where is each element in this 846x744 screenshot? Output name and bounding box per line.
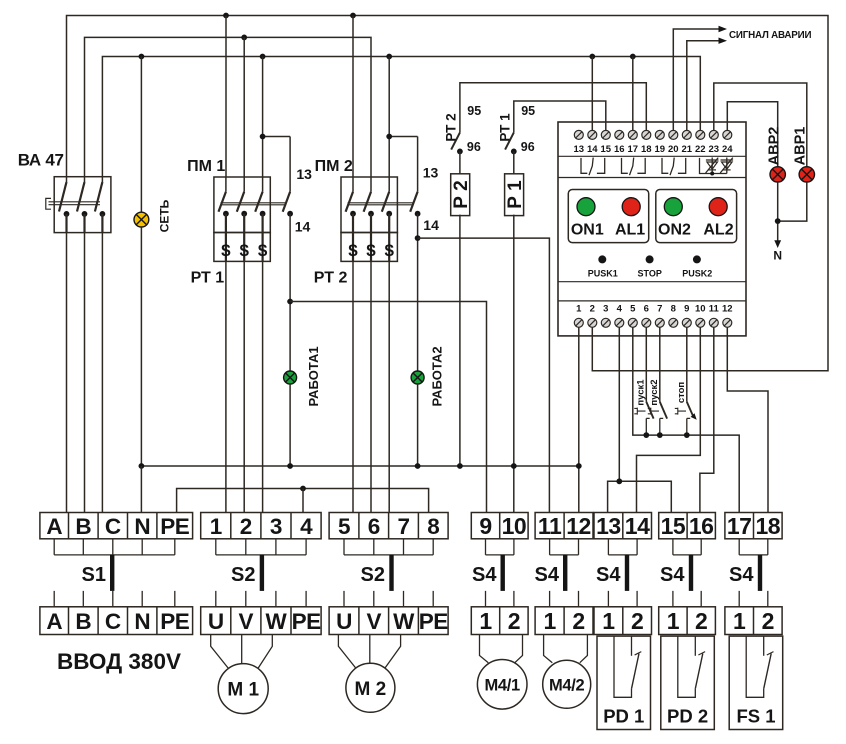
relay P1 coil box xyxy=(505,174,524,216)
wire N line to block S1 cell N xyxy=(140,466,142,513)
breaker BA47 pole 1 xyxy=(66,177,68,182)
svg-text:9: 9 xyxy=(479,513,491,539)
wire terminal 11 to block cell 16 xyxy=(700,327,714,512)
terminal block S4-5 upper row 17 18 xyxy=(725,513,782,539)
connector comb S2-1 upper xyxy=(216,539,306,555)
junction STOP to common xyxy=(684,432,690,438)
cable bar S2-1 xyxy=(260,555,264,591)
svg-text:1: 1 xyxy=(543,608,556,634)
controller bottom terminal numbers xyxy=(576,303,732,314)
wire BA47 output C to block S1 xyxy=(101,233,103,513)
svg-text:пуск2: пуск2 xyxy=(649,379,660,405)
thermal relay RT2 box xyxy=(341,233,397,262)
junction phase C / terminal 17 xyxy=(630,54,636,60)
indicator lamp AVR2 xyxy=(770,167,785,182)
svg-text:B: B xyxy=(75,609,91,634)
connector comb S2-1 lower xyxy=(216,591,306,607)
terminal block S2-2 lower row U V W PE xyxy=(329,607,448,635)
svg-text:W: W xyxy=(393,609,415,634)
wire terminal 21 to alarm signal xyxy=(687,41,720,131)
svg-text:15: 15 xyxy=(601,144,612,155)
terminal block S2-1 upper row 1 2 3 4 xyxy=(201,513,321,539)
cable bar S4 S4-2 xyxy=(563,555,567,591)
junction AVR lamps xyxy=(775,218,781,224)
svg-text:8: 8 xyxy=(671,303,676,314)
svg-text:21: 21 xyxy=(682,144,693,155)
controller lamp ON2 xyxy=(664,198,682,216)
junction PM2 aux branch xyxy=(415,235,421,241)
wire PM2 aux 13 to phase C pole xyxy=(389,136,417,138)
svg-text:ON1: ON1 xyxy=(571,222,604,239)
wires U V W to motor M1 xyxy=(211,635,273,669)
svg-text:М 2: М 2 xyxy=(355,679,387,700)
junction N / relay P1 xyxy=(511,463,517,469)
connector comb S2-2 upper xyxy=(344,539,433,555)
wire BA47 output A to block S1 xyxy=(66,233,68,513)
svg-text:2: 2 xyxy=(240,514,252,539)
contactor PM1 aux contact 13-14 xyxy=(289,137,291,192)
contactor PM1 pole 2 xyxy=(243,177,245,192)
controller top terminal screws 13-24 xyxy=(574,130,732,139)
thermal relay RT2 heater 3 xyxy=(388,233,390,262)
wire phase C bus xyxy=(102,57,700,177)
wire PE to block cell 4 xyxy=(302,489,304,513)
terminal block S4-2 lower row 1 2 xyxy=(535,607,593,635)
connector comb S2-2 lower xyxy=(344,591,433,607)
svg-text:23: 23 xyxy=(709,144,720,155)
junction N / RABOTA1 xyxy=(287,463,293,469)
terminal block S4-3 lower row 1 2 xyxy=(594,607,652,635)
svg-text:РТ 2: РТ 2 xyxy=(314,270,348,287)
svg-text:16: 16 xyxy=(614,144,625,155)
wire terminal 4 to blocks 13 and 15 xyxy=(608,327,672,512)
svg-text:STOP: STOP xyxy=(638,268,662,278)
wire AVR2 lamp to N arrow xyxy=(777,182,779,241)
contactor PM1 pole 3 xyxy=(262,177,264,192)
svg-text:М 1: М 1 xyxy=(227,680,259,701)
connector comb S4-3 lower xyxy=(608,591,637,607)
svg-text:1: 1 xyxy=(602,608,615,634)
junction phase A / PM2 pole1 xyxy=(350,13,356,19)
controller button STOP xyxy=(646,255,654,263)
controller lamp AL1 xyxy=(622,198,640,216)
controller button PUSK2 xyxy=(693,255,701,263)
svg-text:1: 1 xyxy=(576,303,582,314)
controller divider lines bottom xyxy=(558,282,746,301)
junction phase C / PM1 pole3 xyxy=(260,54,266,60)
svg-text:3: 3 xyxy=(270,514,282,539)
motor M1 circle xyxy=(218,664,268,714)
connector comb S4-2 upper xyxy=(550,539,579,555)
wire RT2 output 2 to block S2 xyxy=(370,261,372,512)
svg-text:$: $ xyxy=(384,241,394,260)
wire RT2 output 3 to block S2 xyxy=(388,261,390,512)
svg-text:12: 12 xyxy=(722,303,733,314)
connector comb S4-4 lower xyxy=(673,591,701,607)
motor M4/1 circle xyxy=(477,660,527,710)
svg-text:13: 13 xyxy=(423,165,439,181)
svg-text:V: V xyxy=(239,609,254,634)
controller lamp AL2 xyxy=(709,198,727,216)
junction PM1 aux branch xyxy=(287,299,293,305)
svg-text:19: 19 xyxy=(655,144,666,155)
terminal block S4-3 upper row 13 14 xyxy=(594,513,652,539)
wire P1 coil to N line and block cell 10 xyxy=(513,215,515,513)
terminal block S2-2 upper row 5 6 7 8 xyxy=(329,513,448,539)
svg-text:PD 2: PD 2 xyxy=(667,706,708,727)
wire terminal 14 to phase C xyxy=(591,57,593,131)
wire PM1 aux 13 to phase C pole xyxy=(263,136,291,138)
controller triac output symbol xyxy=(700,158,727,174)
svg-text:5: 5 xyxy=(630,303,636,314)
arrowhead alarm signal 2 xyxy=(719,38,728,44)
controller relay contact symbol 3 xyxy=(662,158,668,173)
svg-text:18: 18 xyxy=(756,513,781,539)
controller button PUSK1 xyxy=(598,255,606,263)
terminal block S4-2 upper row 11 12 xyxy=(535,513,593,539)
motor M2 circle xyxy=(346,663,395,712)
controller panel 1 frame xyxy=(568,190,648,243)
connector comb S4-1 upper xyxy=(486,539,514,555)
cable bar S4 S4-3 xyxy=(625,555,629,591)
svg-text:1: 1 xyxy=(733,608,746,634)
motor M4/2 circle xyxy=(543,660,591,708)
wire AVR1 lamp to junction xyxy=(778,182,807,221)
svg-text:PE: PE xyxy=(419,609,449,634)
svg-text:11: 11 xyxy=(709,303,720,314)
svg-text:PUSK1: PUSK1 xyxy=(588,268,618,278)
sensor PD1 internal contact xyxy=(614,636,632,697)
svg-text:7: 7 xyxy=(397,514,409,539)
svg-text:7: 7 xyxy=(657,303,662,314)
connector comb S1 upper xyxy=(54,539,175,555)
svg-text:$: $ xyxy=(348,241,358,260)
connector comb S1 lower xyxy=(54,591,175,607)
indicator lamp SET xyxy=(134,212,149,227)
svg-text:РАБОТА1: РАБОТА1 xyxy=(306,346,321,406)
svg-text:S4: S4 xyxy=(535,564,560,586)
svg-text:$: $ xyxy=(239,241,249,260)
connector comb S4-1 lower xyxy=(486,591,514,607)
svg-text:2: 2 xyxy=(762,608,774,634)
pushbutton PUSK2 xyxy=(660,402,667,419)
wire phase B bus xyxy=(85,37,372,177)
wire phase A bus xyxy=(67,16,829,371)
connector comb S4-2 lower xyxy=(550,591,579,607)
thermal relay RT1 heater 2 xyxy=(243,233,245,262)
terminal block S4-5 lower row 1 2 xyxy=(725,607,782,635)
wire phase C feeder to PM1 xyxy=(262,57,264,178)
wire BA47 output B to block S1 xyxy=(84,233,86,513)
svg-text:2: 2 xyxy=(590,303,595,314)
wire terminal 6 to button PUSK1 xyxy=(645,327,647,402)
connector comb S4-5 lower xyxy=(739,591,768,607)
controller top terminal numbers xyxy=(574,144,734,155)
contactor PM2 pole 1 xyxy=(352,177,354,192)
wire terminal 7 to button PUSK2 xyxy=(659,327,661,402)
cable bar S4 S4-5 xyxy=(758,555,762,591)
wire terminal 20 to alarm signal xyxy=(673,29,719,130)
junction PM1 aux 13 tap xyxy=(260,134,266,140)
svg-text:12: 12 xyxy=(566,513,591,539)
svg-text:AL1: AL1 xyxy=(615,222,645,239)
svg-text:N: N xyxy=(134,609,150,634)
terminal block S1 upper row A B C N PE xyxy=(40,513,193,539)
contactor PM2 pole 3 xyxy=(388,177,390,192)
junction N / RABOTA2 xyxy=(415,463,421,469)
svg-text:8: 8 xyxy=(427,514,439,539)
wire terminal 5 button common to block cell 17 xyxy=(633,327,739,512)
svg-text:9: 9 xyxy=(684,303,689,314)
svg-text:PD 1: PD 1 xyxy=(603,706,644,727)
sensor PD2 box xyxy=(661,636,715,729)
wire PM1 aux 14 down xyxy=(289,214,291,372)
relay P2 coil box xyxy=(451,174,470,216)
wire RABOTA2 to N line xyxy=(417,384,419,466)
connector comb S4-5 upper xyxy=(739,539,768,555)
svg-text:PE: PE xyxy=(160,514,190,539)
svg-text:Р 2: Р 2 xyxy=(451,180,472,209)
svg-text:2: 2 xyxy=(631,608,643,634)
terminal block S4-1 lower row 1 2 xyxy=(471,607,528,635)
wire RT2 output 1 to block S2 xyxy=(352,261,354,512)
circuit breaker BA47 box xyxy=(54,177,111,233)
wire PE distribution xyxy=(177,489,429,513)
svg-text:пуск1: пуск1 xyxy=(635,379,646,406)
thermal contact RT1 95-96 xyxy=(505,133,514,150)
contactor PM2 linkage bar xyxy=(348,203,413,205)
thermal relay RT1 heater 1 xyxy=(225,233,227,262)
sensor FS1 internal contact xyxy=(746,636,764,697)
wire phase B feeder to PM1 xyxy=(243,37,245,177)
indicator lamp RABOTA1 xyxy=(284,371,297,384)
pushbutton PUSK1 xyxy=(646,402,653,419)
svg-text:10: 10 xyxy=(695,303,706,314)
svg-text:ON2: ON2 xyxy=(658,222,691,239)
contactor PM1 linkage bar xyxy=(221,203,286,205)
svg-text:U: U xyxy=(336,609,352,634)
breaker BA47 pole 2 xyxy=(84,177,86,182)
svg-text:S4: S4 xyxy=(596,564,621,586)
arrowhead to N xyxy=(774,240,781,248)
svg-text:A: A xyxy=(46,609,62,634)
terminal block S4-4 lower row 1 2 xyxy=(659,607,716,635)
svg-text:13: 13 xyxy=(296,166,312,182)
wire RT1 output 1 to block S2 xyxy=(225,261,227,512)
svg-text:$: $ xyxy=(258,241,268,260)
wire SET lamp to N line xyxy=(140,227,142,466)
wire terminal 18 to RT2 contact 95 xyxy=(460,83,646,133)
svg-text:N: N xyxy=(134,514,150,539)
svg-text:14: 14 xyxy=(423,217,439,233)
wire PM1 aux to block cell 9 xyxy=(290,302,486,513)
junction phase B / PM1 pole2 xyxy=(241,35,247,41)
svg-text:C: C xyxy=(105,609,121,634)
svg-text:13: 13 xyxy=(574,144,585,155)
svg-text:6: 6 xyxy=(644,303,649,314)
svg-text:20: 20 xyxy=(668,144,679,155)
svg-text:95: 95 xyxy=(467,104,481,118)
svg-text:S2: S2 xyxy=(361,564,385,586)
svg-text:15: 15 xyxy=(661,513,686,539)
breaker BA47 trip bar xyxy=(49,202,101,205)
controller bottom terminal screws 1-12 xyxy=(574,318,732,327)
thermal contact RT2 95-96 xyxy=(451,133,460,150)
svg-text:14: 14 xyxy=(587,144,598,155)
wire N distribution line xyxy=(141,465,578,467)
cable bar S4 S4-4 xyxy=(689,555,693,591)
svg-text:24: 24 xyxy=(722,144,733,155)
svg-text:W: W xyxy=(266,609,288,634)
controller relay contact symbol 2 xyxy=(622,158,628,173)
svg-text:М4/1: М4/1 xyxy=(484,677,520,695)
contactor PM1 box xyxy=(214,177,270,233)
svg-text:РТ 2: РТ 2 xyxy=(443,113,458,141)
svg-text:АВР2: АВР2 xyxy=(766,127,782,166)
svg-text:М4/2: М4/2 xyxy=(549,677,585,695)
wires U V W to motor M2 xyxy=(338,635,400,669)
indicator lamp AVR1 xyxy=(799,167,814,182)
arrowhead alarm signal 1 xyxy=(719,26,728,32)
cable bar S2-2 xyxy=(389,555,393,591)
thermal relay RT1 heater 3 xyxy=(262,233,264,262)
svg-text:4: 4 xyxy=(300,514,313,539)
controller panel 2 frame xyxy=(656,190,737,243)
wire terminal 12 to block cell 18 xyxy=(727,327,768,512)
svg-text:S2: S2 xyxy=(231,564,255,586)
wire terminal 9 to button STOP xyxy=(686,327,688,402)
wire terminal 15 to RT1 contact 95 xyxy=(514,101,606,133)
svg-text:ПМ 2: ПМ 2 xyxy=(315,158,353,175)
svg-text:13: 13 xyxy=(596,513,621,539)
svg-text:6: 6 xyxy=(368,514,380,539)
svg-text:5: 5 xyxy=(338,514,350,539)
pushbutton STOP xyxy=(687,402,694,417)
junction PUSK2 to common xyxy=(657,432,663,438)
thermal relay RT1 box xyxy=(214,233,270,262)
svg-text:$: $ xyxy=(221,241,231,260)
svg-text:S1: S1 xyxy=(82,564,106,586)
svg-text:ПМ 1: ПМ 1 xyxy=(187,158,225,175)
junction terminal 4 branch xyxy=(616,478,622,484)
junction phase A / PM1 pole1 xyxy=(223,13,229,19)
breaker BA47 pole 3 xyxy=(101,177,103,182)
svg-text:S4: S4 xyxy=(660,564,685,586)
svg-text:10: 10 xyxy=(502,513,527,539)
svg-text:96: 96 xyxy=(521,140,535,154)
wire phase A feeder to PM2 xyxy=(352,16,354,178)
svg-text:S4: S4 xyxy=(472,564,497,586)
cable bar S4 S4-1 xyxy=(501,555,505,591)
thermal relay RT2 heater 1 xyxy=(352,233,354,262)
wires to fan motor M4/2 xyxy=(544,635,588,663)
svg-text:СИГНАЛ АВАРИИ: СИГНАЛ АВАРИИ xyxy=(729,30,811,41)
wire terminal 10 to block cell 14 xyxy=(637,327,701,512)
contactor PM2 pole 2 xyxy=(370,177,372,192)
svg-text:17: 17 xyxy=(628,144,639,155)
svg-text:18: 18 xyxy=(641,144,652,155)
sensor PD1 box xyxy=(597,636,651,729)
breaker BA47 handle bracket xyxy=(46,198,51,209)
sensor FS1 box xyxy=(729,636,783,729)
svg-text:$: $ xyxy=(366,241,376,260)
wire PM2 aux to block cell 11 xyxy=(418,238,550,513)
connector comb S4-3 upper xyxy=(608,539,637,555)
svg-text:17: 17 xyxy=(727,513,752,539)
svg-text:АВР1: АВР1 xyxy=(792,127,808,166)
junction phase C / SET lamp branch xyxy=(139,54,145,60)
svg-text:PE: PE xyxy=(160,609,190,634)
svg-text:1: 1 xyxy=(667,608,680,634)
contactor PM1 pole 1 xyxy=(225,177,227,192)
controller divider lines top xyxy=(558,156,746,177)
wires to fan motor M4/1 xyxy=(480,635,523,663)
svg-text:16: 16 xyxy=(689,513,714,539)
svg-text:стоп: стоп xyxy=(676,382,687,404)
svg-text:ВА 47: ВА 47 xyxy=(18,150,64,169)
svg-text:РТ 1: РТ 1 xyxy=(191,270,225,287)
svg-text:N: N xyxy=(773,249,782,263)
svg-text:4: 4 xyxy=(617,303,623,314)
svg-text:Р 1: Р 1 xyxy=(505,180,526,209)
wire phase C feeder to PM2 xyxy=(388,57,390,178)
svg-text:РТ 1: РТ 1 xyxy=(497,113,512,142)
svg-text:22: 22 xyxy=(695,144,706,155)
wire terminal 24 to AVR2 lamp xyxy=(727,102,777,167)
terminal block S4-1 upper row 9 10 xyxy=(471,513,528,539)
svg-text:ВВОД 380V: ВВОД 380V xyxy=(57,649,181,674)
svg-text:1: 1 xyxy=(210,514,222,539)
svg-text:2: 2 xyxy=(572,608,584,634)
junction PM2 aux 13 tap xyxy=(386,134,392,140)
svg-text:PUSK2: PUSK2 xyxy=(682,268,712,278)
terminal block S1 lower row A B C N PE xyxy=(40,607,193,635)
junction PUSK1 to common xyxy=(643,432,649,438)
svg-text:U: U xyxy=(208,609,224,634)
terminal block S4-4 upper row 15 16 xyxy=(659,513,716,539)
svg-text:95: 95 xyxy=(521,104,535,118)
wire phase C to SET lamp xyxy=(140,57,142,213)
svg-text:РАБОТА2: РАБОТА2 xyxy=(429,346,444,406)
svg-text:96: 96 xyxy=(467,140,481,154)
junction phase C / terminal 14 xyxy=(589,54,595,60)
sensor PD2 internal contact xyxy=(678,636,696,697)
junction PE branch to cell 4 xyxy=(300,486,306,492)
wire RABOTA1 to N line xyxy=(289,384,291,466)
svg-text:2: 2 xyxy=(508,608,520,634)
svg-text:СЕТЬ: СЕТЬ xyxy=(158,199,172,232)
terminal block S2-1 lower row U V W PE xyxy=(201,607,321,635)
cable bar S1 xyxy=(110,555,114,591)
junction phase C / PM2 pole3 xyxy=(386,54,392,60)
svg-text:V: V xyxy=(367,609,382,634)
svg-text:14: 14 xyxy=(295,218,311,234)
svg-text:2: 2 xyxy=(695,608,707,634)
controller unit box xyxy=(558,122,746,336)
connector comb S4-4 upper xyxy=(673,539,701,555)
wire P2 coil to N line xyxy=(459,215,461,466)
indicator lamp RABOTA2 xyxy=(411,371,424,384)
wire RT1 output 2 to block S2 xyxy=(243,261,245,512)
contactor PM2 aux contact 13-14 xyxy=(417,137,419,192)
junction N / relay P2 xyxy=(457,463,463,469)
svg-text:A: A xyxy=(46,514,62,539)
contactor PM2 box xyxy=(341,177,397,233)
svg-text:B: B xyxy=(75,514,91,539)
junction N / SET lamp xyxy=(139,463,145,469)
svg-text:C: C xyxy=(105,514,121,539)
svg-text:AL2: AL2 xyxy=(703,222,733,239)
